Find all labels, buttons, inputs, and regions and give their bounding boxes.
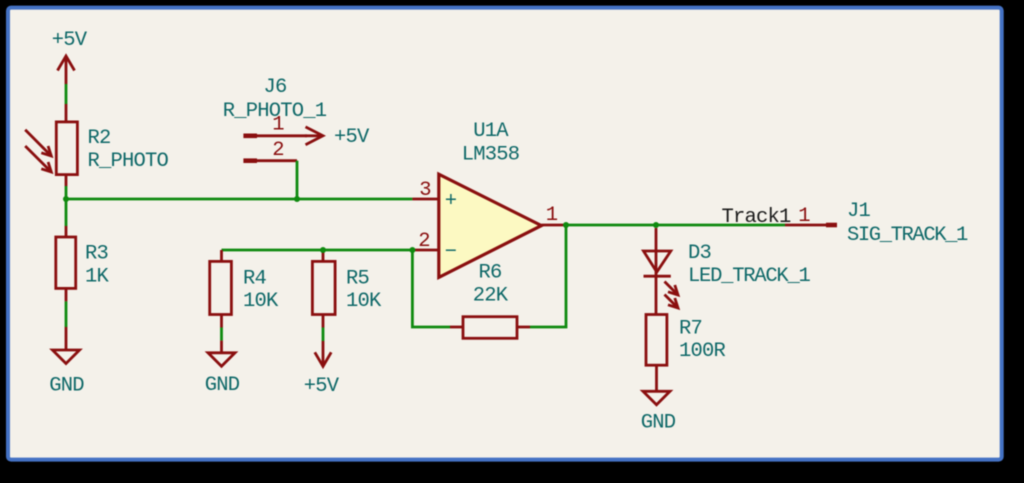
svg-text:1K: 1K: [85, 266, 110, 289]
resistor R7: [646, 315, 667, 392]
LED D3: [644, 228, 679, 315]
junction D3 tap: [653, 222, 659, 228]
junction J6 drop: [294, 196, 300, 202]
power +5V right arrow at J6 pin 1: [305, 127, 323, 145]
svg-text:10K: 10K: [243, 290, 279, 313]
svg-text:U1A: U1A: [473, 120, 509, 143]
svg-text:2: 2: [272, 139, 284, 162]
resistor R4: [210, 250, 232, 328]
junction pin 2 node: [409, 247, 415, 253]
connector J1 pin 1: [785, 224, 837, 227]
ground under R7: [643, 391, 670, 405]
wire output to J1: [566, 224, 785, 227]
svg-text:GND: GND: [205, 374, 240, 397]
svg-text:1: 1: [798, 205, 810, 228]
wire R2 to node A: [65, 186, 68, 199]
svg-text:J1: J1: [847, 200, 871, 223]
power +5V top-left: [58, 56, 75, 84]
svg-text:+: +: [445, 190, 457, 213]
ground under R4: [208, 341, 235, 367]
resistor R6: [450, 317, 530, 339]
op-amp pin 2 stub: [412, 249, 438, 252]
svg-text:SIG_TRACK_1: SIG_TRACK_1: [847, 224, 968, 247]
svg-text:1: 1: [546, 204, 558, 227]
svg-text:GND: GND: [49, 375, 84, 398]
wire node A down to R3: [65, 199, 68, 226]
svg-text:LED_TRACK_1: LED_TRACK_1: [688, 265, 811, 288]
svg-text:+5V: +5V: [304, 375, 340, 398]
svg-text:22K: 22K: [473, 285, 509, 308]
svg-text:10K: 10K: [346, 290, 382, 313]
wire R4 to GND: [220, 328, 223, 341]
svg-text:GND: GND: [641, 412, 676, 435]
svg-text:R5: R5: [346, 268, 369, 291]
wire R3 to GND: [65, 301, 68, 327]
svg-text:D3: D3: [688, 242, 711, 265]
svg-text:Track1: Track1: [722, 206, 792, 229]
svg-text:3: 3: [419, 179, 431, 202]
ground under R3: [53, 327, 80, 364]
wire node A horizontal to op-amp pin 3: [66, 198, 412, 201]
J6 pin 1: [243, 134, 307, 139]
svg-text:R_PHOTO: R_PHOTO: [88, 150, 169, 173]
svg-text:+5V: +5V: [52, 29, 88, 52]
svg-text:1: 1: [272, 114, 284, 137]
J6 pin 2: [243, 158, 297, 163]
svg-text:100R: 100R: [679, 340, 726, 363]
svg-text:R7: R7: [679, 318, 702, 341]
wire feedback right up to output: [530, 225, 566, 327]
svg-text:LM358: LM358: [462, 144, 520, 167]
op-amp pin 1 stub: [541, 224, 566, 227]
svg-text:J6: J6: [263, 76, 286, 99]
svg-text:−: −: [445, 241, 457, 264]
svg-text:R6: R6: [478, 262, 501, 285]
wire R5 to +5V: [322, 328, 325, 342]
resistor R2 (photoresistor): [25, 104, 77, 186]
svg-text:2: 2: [418, 230, 430, 253]
svg-text:R4: R4: [243, 268, 267, 291]
op-amp U1A: [439, 174, 542, 277]
wire +5V to R2: [65, 84, 68, 104]
svg-text:R3: R3: [85, 243, 108, 266]
svg-text:R2: R2: [88, 127, 111, 150]
resistor R3: [56, 226, 76, 301]
junction above R5: [320, 247, 326, 253]
power +5V down arrow under R5: [315, 341, 331, 366]
wire inverting bus R4 to op-amp pin 2: [222, 249, 413, 252]
svg-text:+5V: +5V: [334, 126, 370, 149]
resistor R5: [312, 250, 335, 328]
op-amp pin 3 stub: [412, 198, 438, 201]
wire J6 pin 2 down to node A wire: [296, 161, 299, 199]
junction node A: [63, 196, 69, 202]
junction output node: [563, 222, 569, 228]
wire feedback left down: [412, 250, 450, 327]
